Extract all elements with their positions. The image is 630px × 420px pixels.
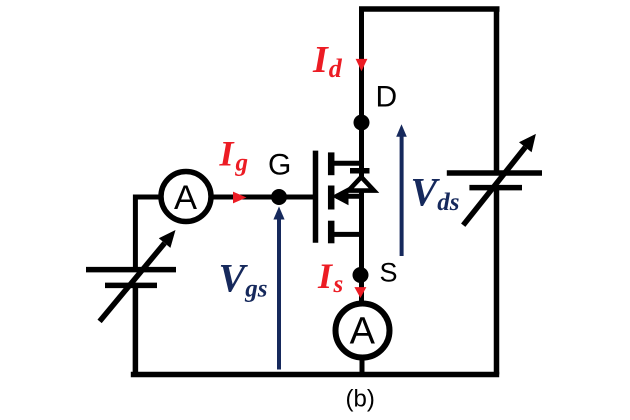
- node D dot: [354, 115, 370, 131]
- ammeter A2 (source): [336, 304, 390, 358]
- wire right vertical upper: [494, 7, 500, 174]
- wire left vertical upper and gate lead: [135, 197, 316, 270]
- mosfet Q1 gate bar: [313, 151, 319, 243]
- mosfet drain connection: [331, 161, 364, 166]
- svg-text:S: S: [380, 257, 398, 287]
- variable source V1 short plate: [105, 283, 157, 289]
- svg-text:(b): (b): [346, 386, 375, 413]
- ammeter A1 (gate): [161, 172, 211, 222]
- mosfet source connection: [331, 232, 364, 237]
- mosfet body diode cathode bar: [350, 168, 370, 174]
- node G dot: [271, 189, 287, 205]
- svg-text:D: D: [376, 80, 398, 113]
- mosfet channel bottom segment: [328, 221, 335, 244]
- red current arrow Ig: [233, 192, 247, 204]
- svg-text:A: A: [350, 311, 376, 353]
- wire drain/source vertical (D branch through MOSFET to ammeter): [359, 7, 364, 306]
- wire right vertical lower: [494, 188, 500, 375]
- mosfet channel top segment: [328, 152, 335, 175]
- wire left vertical lower: [133, 285, 139, 377]
- mosfet channel middle segment: [328, 186, 335, 210]
- wire ammeter A2 bottom lead: [360, 355, 365, 376]
- wire top horizontal: [359, 6, 500, 12]
- mosfet body arrow: [332, 187, 349, 205]
- variable source V2 long plate: [447, 170, 542, 176]
- red current arrow Is: [354, 287, 366, 298]
- variable source V2 arrow: [463, 134, 536, 225]
- voltage arrow Vds: [396, 124, 407, 256]
- variable source V1 arrow: [100, 230, 176, 321]
- node S dot: [353, 267, 369, 283]
- mosfet body line: [336, 194, 364, 199]
- voltage arrow Vgs: [273, 207, 284, 370]
- svg-text:A: A: [174, 179, 197, 217]
- mosfet body diode triangle: [349, 177, 375, 191]
- variable source V1 long plate: [86, 267, 176, 273]
- svg-text:G: G: [268, 148, 291, 181]
- wire bottom horizontal: [131, 372, 499, 378]
- red current arrow Id: [356, 59, 368, 71]
- variable source V2 short plate: [469, 185, 522, 191]
